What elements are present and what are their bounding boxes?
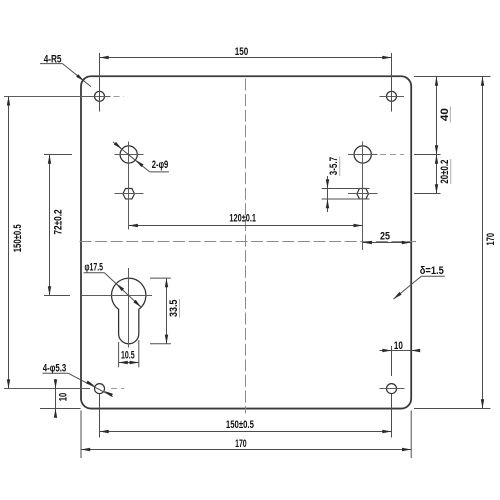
svg-text:40: 40 <box>439 108 451 121</box>
keyhole slot phi17.5 with 10.5 wide slot <box>112 278 146 344</box>
centerline cross bottom-left hole <box>4 388 124 390</box>
dimension 20±0.2 <box>435 155 451 194</box>
label 4-φ5.3 with leader through hole <box>43 363 113 397</box>
centerline keyhole vertical <box>128 268 130 348</box>
hole phi5.3 bottom-right <box>387 384 397 394</box>
centerline cross bottom-right hole <box>380 388 405 390</box>
centerline right phi9 horizontal <box>348 154 404 156</box>
svg-text:10: 10 <box>58 393 70 402</box>
svg-text:φ17.5: φ17.5 <box>85 261 104 273</box>
dimension 170 bottom <box>81 438 411 451</box>
centerline cross top-right hole <box>380 96 405 98</box>
svg-text:150±0.5: 150±0.5 <box>12 224 24 252</box>
svg-text:2-φ9: 2-φ9 <box>152 159 169 171</box>
svg-text:72±0.2: 72±0.2 <box>53 209 65 234</box>
dimension 40 <box>435 77 451 155</box>
dimension 150±0.5 bottom <box>100 419 392 433</box>
hex hole 5.7 left <box>123 189 135 199</box>
extension lines for right 170 dimension <box>414 77 491 409</box>
label φ17.5 with diameter leader <box>84 261 142 307</box>
centerline left hex horizontal <box>115 193 144 195</box>
hole 2-phi9 left <box>120 146 137 163</box>
hole phi5.3 top-right <box>387 91 397 101</box>
centerline right hole column vertical <box>362 142 364 251</box>
extension lines for bottom 150±0.5 <box>100 394 392 438</box>
extension lines for bottom 170 <box>81 411 411 459</box>
extension lines for 33.5 <box>150 278 171 344</box>
dimension 72±0.2 <box>48 155 65 296</box>
label δ=1.5 plate thickness with leader <box>393 265 444 299</box>
label 2-φ9 with diameter leader <box>113 142 169 172</box>
hole phi5.3 top-left <box>95 91 105 101</box>
plate outline (170x170 mounting plate) <box>81 76 411 408</box>
dimension 10 bottom-right <box>380 340 421 376</box>
centerline left hole column vertical <box>128 142 130 230</box>
extension lines for 72±0.2 <box>44 155 72 296</box>
dimension 170 right <box>481 77 497 409</box>
hole phi5.3 bottom-left <box>95 384 105 394</box>
centerline keyhole horizontal <box>82 295 152 297</box>
horizontal centerline of plate <box>80 241 417 243</box>
extension line phi9 level right <box>414 154 441 156</box>
extension line hex level right <box>414 193 441 195</box>
extension lines for 3-5.7 hex size <box>322 189 370 200</box>
centerline right hex horizontal <box>348 193 378 195</box>
extension line bottom edge left <box>40 408 81 410</box>
extension lines for 10.5 <box>119 340 139 367</box>
vertical centerline of plate <box>245 79 247 414</box>
hex hole 5.7 right <box>357 189 369 199</box>
svg-text:δ=1.5: δ=1.5 <box>420 265 444 277</box>
svg-text:25: 25 <box>380 231 390 243</box>
dimension 10.5 <box>119 349 139 364</box>
svg-text:170: 170 <box>485 233 497 246</box>
hole 2-phi9 right <box>354 146 371 163</box>
extension lines for top 150 dimension <box>100 53 392 112</box>
svg-text:20±0.2: 20±0.2 <box>439 160 451 184</box>
svg-text:3-5.7: 3-5.7 <box>328 157 340 175</box>
svg-text:10: 10 <box>394 340 403 352</box>
svg-text:10.5: 10.5 <box>121 349 135 361</box>
dimension 3-5.7 <box>326 157 340 213</box>
label 4-R5 corner radius with leader <box>40 53 91 86</box>
svg-text:150: 150 <box>235 46 249 58</box>
svg-text:120±0.1: 120±0.1 <box>229 212 256 224</box>
svg-text:170: 170 <box>235 438 247 450</box>
dimension 10 bottom-left <box>54 379 70 418</box>
centerline left phi9 horizontal <box>115 154 144 156</box>
dimension 150±0.5 left <box>7 96 24 388</box>
svg-text:150±0.5: 150±0.5 <box>226 419 254 431</box>
dimension 120±0.1 <box>129 212 363 227</box>
dimension 25 <box>363 231 411 245</box>
svg-text:33.5: 33.5 <box>168 300 180 317</box>
dimension 150 top <box>100 46 392 59</box>
centerline cross top-left hole <box>4 96 124 98</box>
dimension 33.5 <box>165 278 180 344</box>
